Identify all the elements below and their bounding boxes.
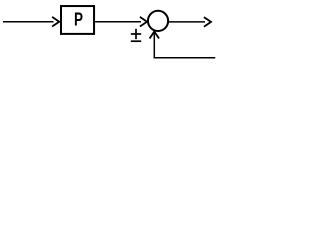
svg-text:P: P — [74, 11, 83, 30]
wire feedback vertical — [153, 33, 155, 58]
arrowhead output — [204, 17, 211, 27]
plus-minus sign — [131, 29, 141, 41]
wire P to summing junction — [95, 21, 141, 23]
block P — [61, 6, 94, 34]
arrowhead feedback into summing junction — [150, 32, 159, 39]
wire feedback horizontal — [154, 57, 216, 59]
arrowhead into summing junction — [140, 17, 147, 27]
wire output signal — [168, 21, 205, 23]
wire input signal — [3, 21, 54, 23]
arrowhead into block P — [52, 17, 59, 27]
summing junction circle — [148, 11, 168, 31]
